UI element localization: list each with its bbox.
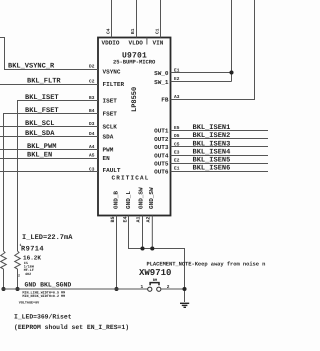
svg-text:GND_B: GND_B — [112, 191, 119, 209]
svg-text:C3: C3 — [89, 166, 95, 172]
svg-text:GND_SW: GND_SW — [138, 187, 145, 209]
svg-text:PLACEMENT_NOTE-Keep away from: PLACEMENT_NOTE-Keep away from noise n — [147, 261, 266, 268]
svg-text:SW_0: SW_0 — [154, 70, 169, 77]
svg-text:SW_1: SW_1 — [154, 79, 169, 86]
svg-text:BKL_ISEN1: BKL_ISEN1 — [193, 124, 231, 132]
svg-text:FB: FB — [161, 97, 169, 104]
connector key bar — [150, 283, 159, 286]
svg-text:A1: A1 — [136, 216, 142, 222]
svg-text:25-BUMP-MICRO: 25-BUMP-MICRO — [113, 59, 156, 66]
node junction GND_B to rail — [114, 287, 118, 291]
svg-text:FSET: FSET — [103, 111, 118, 118]
wire R9714 to rail — [17, 269, 19, 289]
svg-text:VIN: VIN — [153, 40, 164, 47]
node junction RFSET rail — [1, 287, 5, 291]
svg-text:GND_L: GND_L — [125, 191, 132, 209]
wire OUT6 — [171, 171, 269, 173]
svg-text:402: 402 — [25, 272, 31, 277]
svg-text:BKL_ISEN6: BKL_ISEN6 — [193, 165, 231, 173]
svg-text:FILTER: FILTER — [103, 81, 125, 88]
svg-text:E1: E1 — [174, 167, 180, 172]
svg-text:B3: B3 — [89, 95, 95, 101]
svg-text:E4: E4 — [123, 216, 129, 222]
svg-text:16.2K: 16.2K — [23, 255, 41, 262]
wire GND_B down — [116, 216, 118, 290]
wire VLDO top — [136, 0, 138, 38]
svg-text:R9714: R9714 — [21, 246, 44, 254]
divider VLDO|VIN — [146, 38, 148, 45]
wire FAULT — [0, 171, 98, 173]
svg-text:A2: A2 — [146, 216, 152, 222]
svg-text:OUT2: OUT2 — [154, 136, 169, 143]
svg-text:2: 2 — [18, 274, 20, 279]
svg-text:MIN_NECK_WIDTH=0.2 MM: MIN_NECK_WIDTH=0.2 MM — [22, 294, 65, 299]
svg-text:BKL_ISEN5: BKL_ISEN5 — [193, 157, 231, 165]
wire GND_SW 1 down — [142, 216, 144, 249]
wire BKL_SDA — [0, 136, 98, 138]
svg-text:OUT4: OUT4 — [154, 152, 169, 159]
svg-text:B1: B1 — [131, 28, 136, 34]
svg-text:VDDIO: VDDIO — [102, 40, 120, 47]
wire pin2 to ground — [161, 288, 185, 290]
svg-text:D3: D3 — [89, 121, 95, 127]
svg-text:A4: A4 — [89, 145, 95, 150]
svg-text:OUT5: OUT5 — [154, 160, 169, 167]
svg-text:VSYNC: VSYNC — [103, 69, 121, 76]
svg-text:(EEPROM should set EN_I_RES=1): (EEPROM should set EN_I_RES=1) — [14, 324, 129, 331]
svg-text:OUT3: OUT3 — [154, 144, 169, 151]
svg-text:OUT1: OUT1 — [154, 128, 169, 135]
svg-text:VOLTAGE=0V: VOLTAGE=0V — [19, 301, 40, 306]
svg-text:I_LED=369/Riset: I_LED=369/Riset — [14, 314, 72, 321]
connector pin 2 circle — [157, 287, 161, 291]
wire OUT5 — [171, 163, 269, 165]
wire SW_0 — [171, 72, 232, 74]
svg-text:1: 1 — [141, 285, 144, 290]
svg-text:BKL_ISEN2: BKL_ISEN2 — [193, 132, 231, 140]
svg-text:PWM: PWM — [103, 147, 114, 154]
svg-text:C4: C4 — [106, 28, 112, 34]
svg-text:GND BKL_SGND: GND BKL_SGND — [25, 282, 72, 289]
wire FB — [171, 0, 255, 100]
node junction A2 — [150, 246, 154, 250]
wire GND_L down and right — [129, 216, 185, 303]
wire RFSET to rail — [3, 269, 5, 289]
svg-text:OUT6: OUT6 — [154, 168, 169, 175]
svg-text:CRITICAL: CRITICAL — [112, 175, 150, 182]
svg-text:E3: E3 — [174, 150, 180, 156]
wire BKL_PWM — [0, 149, 98, 151]
svg-text:D2: D2 — [89, 64, 95, 70]
wire ground rail — [2, 288, 148, 290]
svg-text:XW9710: XW9710 — [139, 268, 171, 278]
wire VDDIO top — [111, 0, 113, 38]
svg-text:BKL_ISEN4: BKL_ISEN4 — [193, 149, 231, 157]
svg-text:VLDO: VLDO — [129, 40, 144, 47]
svg-text:EN: EN — [103, 155, 111, 162]
svg-text:GND_SW: GND_SW — [148, 187, 155, 209]
node junction R9714 rail — [15, 287, 19, 291]
node junction ground — [182, 287, 186, 291]
wire BKL_SCL — [0, 126, 98, 128]
wire SW net vertical — [231, 0, 233, 82]
svg-text:ISET: ISET — [103, 98, 118, 105]
svg-text:C2: C2 — [89, 79, 95, 85]
wire BKL_ISET — [18, 101, 99, 252]
wire OUT3 — [171, 146, 269, 148]
resistor RFSET body — [1, 251, 7, 269]
wire OUT2 — [171, 138, 269, 140]
svg-text:LP8550: LP8550 — [131, 87, 139, 112]
wire BKL_FSET — [4, 114, 99, 252]
op-amp U9701 chip body — [98, 38, 171, 216]
svg-text:FAULT: FAULT — [103, 167, 121, 174]
svg-text:1: 1 — [20, 243, 22, 248]
wire OUT4 — [171, 155, 269, 157]
wire BKL_EN — [0, 158, 98, 160]
connector pin 1 circle — [148, 287, 152, 291]
svg-text:I_LED=22.7mA: I_LED=22.7mA — [22, 234, 73, 242]
wire BKL_FLTR — [0, 84, 98, 86]
svg-text:SDA: SDA — [103, 134, 114, 141]
svg-text:D4: D4 — [89, 132, 95, 137]
wire GND_SW 2 down — [151, 216, 153, 249]
wire SW_1 — [171, 81, 232, 83]
node SW junction — [229, 70, 233, 74]
svg-text:A5: A5 — [89, 154, 95, 159]
wire BKL_VSYNC_R — [0, 38, 98, 70]
wire VIN top — [160, 0, 162, 38]
ground symbol — [180, 303, 189, 307]
resistor R9714 body — [15, 251, 21, 269]
wire OUT1 — [171, 130, 269, 132]
node junction A1 — [140, 246, 144, 250]
svg-text:B5: B5 — [110, 216, 116, 222]
svg-text:SCLK: SCLK — [103, 124, 118, 131]
svg-text:B4: B4 — [89, 109, 95, 114]
svg-text:C1: C1 — [155, 28, 161, 34]
svg-text:E2: E2 — [174, 158, 180, 164]
svg-text:BKL_ISEN3: BKL_ISEN3 — [193, 140, 231, 148]
